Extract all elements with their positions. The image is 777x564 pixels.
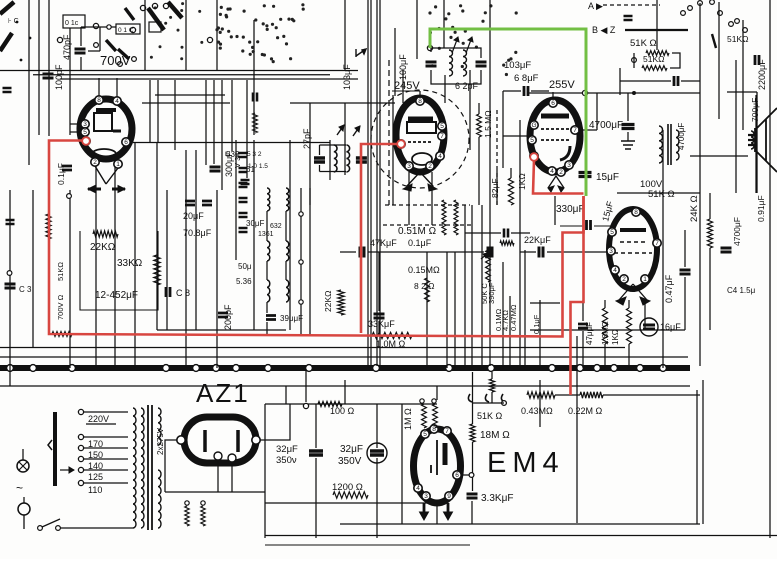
wire B+ rail: [527, 92, 700, 94]
svg-text:C 3: C 3: [19, 285, 32, 294]
wire: [472, 372, 474, 424]
wire: [213, 80, 215, 164]
wire: [444, 75, 446, 103]
choke: [442, 200, 446, 235]
svg-text:1: 1: [116, 161, 120, 168]
capacitor 47pF: [578, 324, 588, 328]
resistor 51K: [642, 66, 667, 71]
svg-text:2x275V: 2x275V: [156, 427, 165, 455]
tube AZ1 filament pins: [214, 452, 222, 460]
wire: [0, 70, 358, 72]
wire: [402, 70, 404, 103]
wire: [300, 188, 302, 336]
wire: [340, 523, 700, 525]
svg-text:255V: 255V: [549, 79, 575, 91]
tube V3 left pins: [530, 121, 538, 129]
resistor 0.22M: [580, 392, 603, 398]
capacitor 4700pF: [622, 125, 635, 129]
tube EM4 right pin: [453, 471, 461, 479]
wire: [144, 0, 146, 70]
antenna dot: [16, 21, 19, 24]
wire: [376, 0, 378, 366]
wire: [489, 0, 491, 366]
tube V1 diode arrows: [95, 166, 118, 184]
resistor 22K: [338, 290, 344, 315]
node ring: [502, 401, 507, 406]
svg-text:61: 61: [246, 165, 255, 174]
wire: [690, 155, 748, 157]
switch lever: [168, 2, 182, 18]
svg-text:8: 8: [634, 209, 638, 216]
node junction: [69, 365, 76, 372]
capacitor trimmer: [239, 153, 248, 157]
tuning gang box: [80, 231, 158, 310]
wire: [0, 385, 690, 387]
tube V2 diode arrows: [407, 172, 433, 186]
resistor 51K: [646, 51, 669, 56]
wire: [320, 171, 347, 173]
wire: [530, 302, 560, 304]
wire: [360, 165, 362, 172]
transformer secondary: [158, 408, 161, 445]
tube V3 cathode loop: [560, 146, 570, 160]
wire: [48, 0, 50, 136]
svg-text:7: 7: [445, 428, 449, 435]
tube V2 grid: [408, 141, 433, 143]
transformer core: [147, 405, 149, 530]
wire: [221, 80, 223, 190]
svg-text:220V: 220V: [88, 414, 109, 424]
capacitor trimmer: [239, 213, 248, 217]
wire: [142, 102, 230, 104]
switch contacts: [681, 11, 686, 16]
svg-text:0.1μF: 0.1μF: [408, 238, 432, 248]
node junction: [163, 365, 170, 372]
capacitor IFT1b: [476, 62, 487, 66]
red trace tube1 to AGC bus: [49, 141, 584, 337]
node ring: [185, 501, 189, 505]
node: [632, 91, 636, 95]
tube V1 top bar: [96, 108, 116, 112]
svg-text:0.43MΩ: 0.43MΩ: [521, 406, 553, 416]
tube V1 left pins: [81, 120, 89, 128]
node ring: [299, 260, 303, 264]
capacitor 0.1MF: [488, 247, 492, 258]
tube V3 right pin: [571, 126, 579, 134]
capacitor: [3, 88, 12, 92]
wire: [0, 356, 688, 358]
svg-text:12-452μF: 12-452μF: [95, 290, 138, 301]
wire: [555, 394, 580, 396]
heater resistor: [185, 506, 189, 526]
wire: [344, 380, 346, 404]
resistor 1K: [508, 178, 513, 205]
tube V4 envelope: [609, 209, 657, 289]
capacitor mid: [504, 229, 508, 238]
wire: [100, 26, 116, 28]
svg-text:3.3KμF: 3.3KμF: [481, 493, 513, 504]
svg-text:245V: 245V: [394, 80, 420, 92]
node ring: [107, 25, 111, 29]
red trace mid IF: [361, 144, 403, 333]
capacitor 100pF: [43, 74, 54, 78]
svg-text:4: 4: [550, 168, 554, 175]
svg-text:470pF: 470pF: [62, 34, 72, 60]
capacitor 330pF: [587, 220, 591, 230]
tuning arrow: [466, 37, 472, 53]
wire: [116, 78, 118, 97]
coil IF pair1: [267, 188, 270, 211]
transformer primary taps: [78, 409, 83, 414]
capacitor 0.1uF: [62, 166, 72, 170]
wire: [735, 60, 737, 193]
tube V3 anode: [541, 114, 569, 119]
tube V1 inner bar: [113, 130, 121, 133]
red trace AF: [571, 196, 584, 395]
tube V1 right pin: [122, 138, 130, 146]
tuning arrow: [452, 37, 458, 53]
svg-text:6: 6: [455, 472, 459, 479]
wire: [756, 92, 758, 193]
svg-text:4700μF: 4700μF: [732, 217, 742, 246]
wire: [416, 0, 418, 59]
node ring: [420, 399, 424, 403]
svg-text:0 1c: 0 1c: [65, 20, 79, 27]
svg-text:5.36: 5.36: [236, 277, 252, 286]
wire: [431, 70, 481, 84]
tube V2 anode box: [407, 122, 436, 133]
wire: [392, 95, 394, 205]
wire: [185, 0, 187, 70]
wire: [216, 0, 218, 70]
wire: [265, 544, 470, 546]
node ring: [299, 300, 303, 304]
transformer secondary: [676, 130, 679, 160]
svg-text:2: 2: [428, 163, 432, 170]
capacitor 32uF: [309, 451, 323, 455]
wire: [628, 300, 630, 308]
wire: [519, 120, 521, 366]
capacitor trimmer: [239, 228, 248, 232]
svg-text:AZ1: AZ1: [196, 378, 250, 408]
wire: [431, 172, 433, 225]
svg-text:33KΩ: 33KΩ: [117, 258, 143, 269]
wire grid line: [133, 142, 330, 144]
wire: [596, 93, 598, 130]
svg-text:0.47μF: 0.47μF: [664, 274, 674, 303]
resistor 33K: [154, 255, 160, 285]
tube EM4 electrode: [431, 440, 437, 475]
speaker coil: [751, 131, 754, 149]
wire: [496, 170, 498, 205]
wire: [28, 0, 30, 165]
capacitor 300pF: [210, 167, 221, 171]
svg-text:20μF: 20μF: [183, 211, 204, 221]
svg-text:50μ: 50μ: [238, 262, 252, 271]
svg-text:4: 4: [613, 267, 617, 274]
svg-text:3: 3: [609, 248, 613, 255]
capacitor trimmer: [239, 168, 248, 172]
transformer core: [667, 124, 669, 165]
node junction: [611, 365, 618, 372]
capacitor 6.8pF: [524, 86, 528, 96]
wire: [319, 145, 321, 155]
tube AZ1 pins: [177, 436, 185, 444]
node junction: [549, 365, 556, 372]
svg-text:3: 3: [424, 493, 428, 500]
red pin ring: [82, 137, 90, 145]
wire: [9, 190, 11, 386]
wire: [185, 150, 187, 368]
wire: [217, 460, 219, 492]
wire: [69, 28, 71, 135]
svg-text:1KΩ: 1KΩ: [611, 329, 620, 345]
tuning arrow: [353, 126, 360, 136]
wire: [157, 80, 159, 143]
wire: [431, 48, 481, 58]
node junction: [660, 365, 667, 372]
capacitor 39uF: [266, 316, 276, 320]
svg-text:EM4: EM4: [487, 447, 565, 479]
resistor 1.8M vertical: [470, 424, 475, 442]
wire: [253, 20, 255, 135]
wire: [510, 168, 512, 178]
switch lever: [712, 34, 716, 48]
svg-text:100pF: 100pF: [54, 64, 64, 90]
wire: [684, 230, 686, 267]
capacitor 47KpF: [360, 247, 364, 258]
wire: [481, 205, 483, 368]
tube AZ1 envelope: [184, 417, 256, 463]
tube EM4 bottom pins: [414, 484, 422, 492]
tube V4 grid: [614, 242, 652, 253]
node ring: [7, 271, 12, 276]
svg-text:1361: 1361: [258, 231, 274, 238]
svg-text:1.5 MΩ: 1.5 MΩ: [483, 110, 493, 138]
svg-text:24K Ω: 24K Ω: [689, 195, 700, 222]
wire: [80, 27, 82, 46]
antenna stroke: [0, 2, 14, 14]
wire: [329, 140, 331, 180]
wire: [503, 135, 529, 137]
wire: [769, 0, 771, 538]
wire: [378, 321, 380, 336]
svg-text:51K Ω: 51K Ω: [477, 411, 503, 421]
svg-text:1200 Ω: 1200 Ω: [332, 482, 363, 493]
tube V2 cathode: [412, 153, 432, 165]
tube V1 anode box: [94, 113, 112, 131]
svg-text:4: 4: [438, 153, 442, 160]
wire: [266, 302, 268, 313]
wire: [461, 474, 469, 476]
red pin ring: [530, 153, 538, 161]
wire: [491, 372, 493, 379]
resistor on red bus: [52, 332, 72, 337]
svg-text:2: 2: [93, 159, 97, 166]
wire: [727, 91, 757, 93]
green trace: [430, 29, 586, 196]
svg-text:700μF: 700μF: [750, 98, 760, 122]
svg-text:A ▶: A ▶: [588, 1, 603, 11]
svg-text:200pF: 200pF: [223, 304, 233, 330]
resistor 1.0M: [372, 332, 412, 338]
wire: [464, 205, 466, 368]
tube V4 top pin: [632, 208, 640, 216]
red trace detector: [533, 160, 584, 194]
svg-text:2: 2: [559, 169, 563, 176]
wire: [260, 404, 290, 440]
svg-text:32μF: 32μF: [276, 444, 298, 455]
wire: [469, 70, 471, 150]
coil IFT1: [449, 50, 453, 76]
wire: [265, 403, 437, 405]
tube EM4 top pins: [421, 430, 429, 438]
wire: [340, 251, 356, 253]
heater resistor 2: [201, 506, 205, 526]
node ring: [427, 45, 432, 50]
wire: [619, 68, 621, 95]
svg-text:51KΩ: 51KΩ: [56, 262, 65, 281]
svg-text:7: 7: [655, 240, 659, 247]
transformer coil primary2: [141, 408, 144, 528]
wire: [443, 0, 445, 48]
wire: [309, 103, 311, 205]
svg-text:7: 7: [573, 127, 577, 134]
wire: [344, 103, 346, 175]
tube V1 envelope: [80, 99, 132, 159]
tube AZ1 anode bars: [203, 430, 207, 452]
wire: [165, 440, 177, 492]
red pin ring: [397, 140, 405, 148]
wire: [472, 402, 504, 404]
node ring: [303, 403, 308, 408]
tube V2 anode: [408, 117, 433, 122]
resistor 0.43M: [527, 392, 555, 398]
capacitor C3: [5, 284, 16, 288]
switch lever: [148, 8, 164, 30]
wire: [266, 261, 268, 280]
switch lever: [125, 8, 134, 20]
tube V4 bottom pins: [620, 275, 628, 283]
svg-text:350ν: 350ν: [276, 455, 297, 466]
wire: [454, 252, 456, 368]
capacitor 2200pF: [755, 55, 759, 65]
capacitor: [6, 220, 15, 224]
svg-text:15μF: 15μF: [596, 172, 619, 183]
ground: [621, 141, 635, 149]
tube V2 top pin: [416, 97, 424, 105]
wire: [503, 90, 521, 92]
capacitor 470pF: [75, 49, 86, 53]
svg-text:1: 1: [643, 276, 647, 283]
svg-text:100 Ω: 100 Ω: [330, 406, 355, 416]
coil osc2: [346, 145, 349, 172]
tube V4 bottom arrows: [619, 284, 647, 300]
resistor pair above EM4: [422, 404, 427, 428]
switch contacts: [140, 5, 145, 10]
svg-text:6: 6: [551, 100, 555, 107]
wire: [576, 336, 578, 523]
svg-text:C4 1.5μ: C4 1.5μ: [727, 286, 756, 295]
wire: [309, 188, 311, 336]
svg-text:2: 2: [622, 276, 626, 283]
wire: [368, 251, 484, 253]
svg-text:5: 5: [83, 129, 87, 136]
wire: [32, 190, 34, 348]
plug symbol: [18, 503, 30, 515]
coupling box2: [116, 24, 140, 34]
tube EM4 target bar: [443, 443, 448, 465]
wire: [627, 132, 629, 141]
wire: [702, 380, 704, 524]
wire: [195, 150, 197, 330]
wire: [644, 300, 646, 330]
capacitor 3.3KuF: [467, 494, 478, 498]
wire: [265, 535, 777, 537]
resistor 1.5M: [477, 114, 482, 137]
coil IF pair2: [267, 241, 270, 261]
svg-text:103μF: 103μF: [342, 64, 352, 90]
resistor 51K vertical: [489, 379, 494, 392]
svg-text:4: 4: [115, 98, 119, 105]
switch contacts: [94, 43, 99, 48]
wire: [670, 53, 680, 68]
coupling box: [63, 15, 85, 28]
node junction: [306, 365, 313, 372]
svg-text:0 1 C: 0 1 C: [118, 27, 134, 34]
node junction: [30, 365, 37, 372]
svg-text:~: ~: [16, 481, 23, 495]
capacitor 32uF b: [367, 443, 387, 463]
resistor 0.15M: [425, 278, 430, 302]
wire: [471, 501, 473, 524]
antenna stroke: [0, 33, 12, 51]
wire: [155, 94, 225, 96]
wire: [604, 300, 606, 308]
wire: [98, 78, 100, 96]
wire: [394, 28, 396, 96]
svg-text:47KμF: 47KμF: [370, 238, 397, 248]
wire: [378, 252, 380, 311]
capacitor C8: [166, 287, 170, 297]
wire: [408, 172, 410, 225]
wire: [524, 250, 526, 368]
wire: [370, 0, 372, 366]
node junction: [213, 365, 220, 372]
wire: [552, 92, 554, 100]
resistor: [253, 113, 258, 133]
wire: [216, 190, 218, 368]
choke2: [454, 200, 458, 235]
node junction: [373, 365, 380, 372]
volume pot arrows: [468, 394, 505, 402]
node junction: [637, 365, 644, 372]
resistor 1200ohm: [333, 492, 368, 498]
svg-text:0.51M Ω: 0.51M Ω: [398, 226, 437, 237]
node junction: [594, 365, 601, 372]
tube V1 top pins: [95, 96, 103, 104]
coupling box3: [149, 22, 161, 32]
svg-text:22KΩ: 22KΩ: [90, 242, 116, 253]
capacitor trimmer: [239, 198, 248, 202]
svg-text:8: 8: [97, 97, 101, 104]
wire: [471, 205, 473, 368]
wire: [656, 0, 658, 50]
svg-text:8 2 Ω: 8 2 Ω: [414, 281, 435, 291]
tube V3 bottom pins: [548, 167, 556, 175]
capacitor 700pF: [674, 76, 678, 86]
shield circle tube2: [371, 90, 469, 188]
